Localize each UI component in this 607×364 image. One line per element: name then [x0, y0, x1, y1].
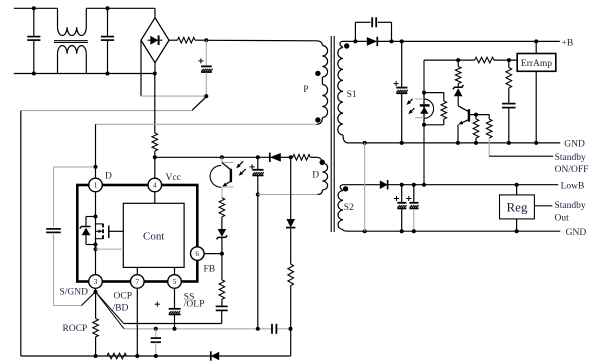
svg-text:/OLP: /OLP [184, 299, 205, 309]
svg-text:Standby: Standby [555, 153, 586, 163]
svg-text:FB: FB [204, 264, 216, 274]
svg-text:5: 5 [173, 277, 177, 286]
svg-text:Standby: Standby [555, 201, 586, 211]
svg-text:S2: S2 [344, 203, 354, 213]
svg-text:/BD: /BD [113, 304, 129, 314]
svg-text:3: 3 [94, 277, 98, 286]
svg-text:D: D [312, 171, 319, 181]
svg-text:GND: GND [566, 228, 587, 238]
svg-text:OCP: OCP [114, 292, 132, 302]
svg-text:Cont: Cont [143, 231, 164, 243]
svg-text:ON/OFF: ON/OFF [555, 165, 589, 175]
svg-text:Vcc: Vcc [166, 173, 181, 183]
svg-text:+B: +B [562, 38, 574, 48]
svg-text:LowB: LowB [561, 181, 585, 191]
svg-text:S/GND: S/GND [60, 288, 89, 298]
svg-text:D: D [105, 172, 112, 182]
svg-text:S1: S1 [347, 90, 357, 100]
svg-text:GND: GND [564, 140, 585, 150]
svg-text:6: 6 [195, 249, 199, 258]
svg-text:Out: Out [555, 213, 570, 223]
svg-text:1: 1 [94, 181, 98, 190]
svg-text:ErrAmp: ErrAmp [521, 59, 552, 69]
svg-text:ROCP: ROCP [63, 324, 88, 334]
svg-text:7: 7 [135, 277, 139, 286]
svg-text:P: P [303, 85, 308, 95]
svg-text:4: 4 [153, 181, 157, 190]
svg-text:Reg: Reg [507, 199, 528, 214]
